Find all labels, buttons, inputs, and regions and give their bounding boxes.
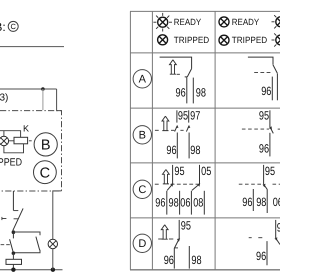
wire right from node 1	[13, 232, 40, 235]
terminal 96 A1	[185, 77, 187, 104]
terminal 95 C1	[172, 165, 174, 184]
svg-text:96: 96	[242, 195, 252, 209]
svg-text:98: 98	[169, 196, 179, 210]
node dot left on bottom rail	[11, 268, 15, 272]
linkage dashes C1	[155, 183, 159, 185]
wire bottom of bypass contact	[13, 250, 40, 253]
contact seat tick D1	[174, 247, 178, 249]
contact 2 stem	[12, 232, 14, 238]
terminal 96 C1	[166, 191, 168, 215]
svg-text:A: A	[139, 74, 147, 86]
linkage dashes of contact 2	[1, 244, 11, 246]
svg-text:TRIPPED: TRIPPED	[232, 35, 268, 45]
linkage dashes A2	[254, 71, 272, 73]
row line A/B	[130, 107, 280, 109]
lamp L1 (supervision lamp)	[0, 136, 9, 145]
svg-text:B:: B:	[0, 20, 6, 34]
wire resistor to bottom rail	[12, 264, 14, 269]
blade arrowhead 97 B1	[188, 125, 191, 128]
terminal 95 C2	[263, 165, 265, 184]
wire lamp to resistor	[9, 140, 14, 142]
terminal 96 D2	[266, 241, 268, 265]
svg-text:08: 08	[193, 196, 203, 210]
node junction dot on wire	[41, 87, 45, 91]
blade 95-96 C1	[167, 184, 173, 190]
svg-text:05: 05	[201, 164, 211, 178]
contact bypass blade	[36, 237, 40, 251]
blade 05-06 C1	[192, 184, 200, 190]
callout circle C	[34, 161, 57, 184]
wire rail row A col2	[248, 57, 273, 65]
contact 52a seat tick	[13, 210, 18, 212]
contact blade A2	[273, 65, 277, 74]
svg-text:C: C	[10, 22, 16, 31]
lamp READY col1 (lit)	[158, 17, 168, 27]
row label circle D	[133, 234, 151, 252]
contact blade A1	[187, 69, 191, 77]
blade arrowhead D1	[177, 238, 180, 241]
wire lamp branch top	[3, 131, 5, 137]
callout circle B	[34, 133, 57, 156]
svg-text:READY: READY	[232, 17, 259, 27]
terminal 96 B1	[176, 133, 178, 159]
row label circle B	[133, 126, 151, 144]
lamp TRIPPED col1 (dark)	[158, 35, 168, 45]
lamp READY col2 right (lit, clipped)	[276, 17, 286, 27]
linkage dashes B2	[242, 128, 269, 130]
blade arrowhead 95 B1	[176, 125, 179, 128]
wire top horizontal	[0, 88, 57, 90]
linkage dashes D2	[249, 237, 252, 239]
linkage dashes B1	[155, 129, 161, 131]
terminal 98 B1	[188, 133, 190, 159]
svg-text:96: 96	[176, 85, 186, 99]
contact 2 blade	[10, 239, 14, 252]
terminal 95 D2	[275, 220, 277, 238]
wire gray drop from node	[42, 89, 44, 110]
terminal 97 B1	[188, 110, 190, 122]
terminal 98 A1	[192, 78, 194, 104]
arrow actuate D1	[161, 225, 168, 239]
wire down to box corner	[57, 89, 62, 111]
svg-text:95: 95	[265, 164, 275, 178]
table divider letters column	[151, 11, 153, 269]
svg-text:TRIPPED: TRIPPED	[0, 157, 22, 169]
svg-text:READY: READY	[174, 17, 201, 27]
rule line under title	[0, 46, 64, 48]
arrow actuate C1	[163, 170, 170, 184]
node dot right on bottom rail	[51, 268, 55, 272]
svg-text:98: 98	[196, 85, 206, 99]
terminal 98 C2	[266, 189, 268, 213]
row label circle A	[133, 70, 151, 88]
blade arrowhead 05 C1	[197, 183, 200, 187]
callout circle C (top)	[8, 21, 18, 31]
blade arrowhead C2	[263, 184, 266, 188]
contact 52a blade	[13, 208, 23, 230]
svg-text:96: 96	[259, 141, 269, 155]
svg-text:96: 96	[155, 196, 165, 210]
svg-text:95: 95	[277, 220, 280, 234]
row label circle C	[133, 180, 151, 198]
relay box dash-dot border	[0, 111, 62, 191]
linkage dashes C2	[239, 183, 262, 185]
lamp L2 (trip lamp)	[48, 239, 57, 248]
lamp READY col2 (dark)	[219, 17, 229, 27]
arrow actuate B1	[162, 116, 169, 130]
row line B/C	[130, 162, 280, 164]
svg-text:96: 96	[256, 249, 266, 263]
terminal 95 B1	[176, 110, 178, 122]
svg-text:95: 95	[178, 109, 188, 123]
table outer border top	[130, 10, 280, 12]
svg-text:96: 96	[166, 143, 176, 157]
svg-text:98: 98	[190, 143, 200, 157]
row line C/D	[130, 217, 280, 219]
wire to resistor R	[12, 253, 14, 259]
wire lamp branch from box bottom	[53, 191, 62, 239]
svg-text:TRIPPED: TRIPPED	[174, 35, 210, 45]
wire terminal from box bottom	[12, 191, 14, 210]
blade arrowhead D2	[275, 237, 278, 241]
blade arrowhead 95 C1	[170, 183, 173, 187]
linkage dash A1	[177, 73, 180, 75]
terminal 96 A2	[271, 77, 273, 101]
resistor R body	[6, 259, 22, 264]
svg-text:C: C	[40, 165, 50, 181]
row line header/A	[130, 52, 280, 54]
terminal 98 A2	[276, 74, 278, 101]
node dot 2	[12, 251, 16, 255]
terminal 95 D1	[178, 220, 180, 239]
terminal 98 D1	[188, 246, 190, 269]
wire top rail inside box	[0, 131, 21, 138]
terminal 06 C1	[190, 191, 192, 215]
terminal 05 C1	[199, 165, 201, 184]
blade B2 swung right	[270, 127, 273, 134]
svg-text:98: 98	[191, 253, 201, 267]
svg-text:98: 98	[256, 195, 266, 209]
blade 95-96 B1	[175, 126, 178, 132]
svg-text:95: 95	[181, 219, 191, 233]
arrow actuate A1	[170, 60, 177, 74]
svg-text:B: B	[139, 130, 146, 142]
svg-text:95: 95	[259, 109, 269, 123]
svg-text:K: K	[23, 123, 29, 133]
svg-text:06: 06	[273, 195, 280, 209]
terminal 95 B2	[269, 110, 271, 127]
wire bottom rail	[0, 269, 63, 271]
svg-text:97: 97	[190, 109, 200, 123]
resistor K body	[14, 137, 28, 144]
svg-text:B: B	[41, 138, 51, 154]
terminal 98 C1	[179, 191, 181, 215]
blade 95-96 D1	[174, 239, 179, 249]
table outer border left	[129, 11, 131, 269]
svg-text:C: C	[138, 184, 146, 196]
svg-text:96: 96	[261, 84, 271, 98]
table divider state columns	[214, 11, 216, 269]
terminal 08 C1	[203, 191, 205, 215]
wire lamp L2 to bottom rail	[52, 249, 54, 270]
svg-text:D: D	[138, 238, 146, 250]
wire bottom rail of lamp/resistor loop	[4, 144, 24, 153]
svg-text:95: 95	[174, 164, 184, 178]
table outer border bottom	[130, 269, 280, 271]
svg-text:3): 3)	[0, 93, 8, 104]
wire dash to callout B	[29, 140, 32, 142]
blade D2 swung right	[276, 238, 280, 244]
linkage dashes D1	[158, 238, 162, 240]
svg-text:06: 06	[180, 196, 190, 210]
blade C2 swung to 98	[264, 184, 268, 189]
terminal 96 B2	[269, 133, 271, 157]
linkage dashes of contact 1	[2, 218, 7, 220]
node dot 1	[12, 230, 16, 234]
terminal 96 D1	[173, 248, 175, 268]
blade 97-98 B1	[186, 126, 189, 132]
lamp TRIPPED col2 (dark)	[219, 35, 229, 45]
terminal 96 C2	[252, 189, 254, 211]
svg-text:96: 96	[164, 253, 174, 267]
blade arrowhead B2	[269, 126, 272, 129]
wire rail row A col1	[160, 57, 192, 69]
lamp TRIPPED col2 right (lit, clipped)	[276, 35, 286, 45]
